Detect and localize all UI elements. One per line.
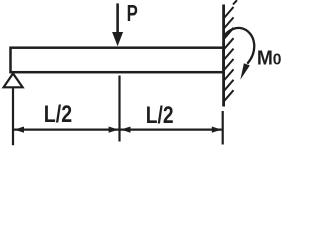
wall hatching xyxy=(224,0,237,101)
wall (fixed support) vertical line xyxy=(222,5,225,107)
svg-text:L/2: L/2 xyxy=(44,101,72,128)
dimension arrow right-right xyxy=(212,127,222,133)
load arrow P (head) xyxy=(112,32,123,46)
dimension line left span xyxy=(14,128,119,130)
dimension arrow left-left xyxy=(14,127,24,133)
moment arrow M0 (head) xyxy=(240,63,250,80)
beam AB xyxy=(11,48,224,72)
moment arrow M0 (arc) xyxy=(225,28,255,64)
extension line left (below pin support) xyxy=(12,88,14,145)
svg-text:L/2: L/2 xyxy=(146,102,174,129)
load arrow P (shaft) xyxy=(116,3,119,34)
svg-text:0: 0 xyxy=(273,52,282,69)
extension line mid (below load) xyxy=(118,76,120,142)
dimension arrow left-right xyxy=(109,127,119,133)
pin support (triangle) at A xyxy=(4,74,23,88)
dimension line right span xyxy=(121,128,222,130)
extension line right (below wall) xyxy=(222,111,224,145)
svg-text:M: M xyxy=(257,46,273,69)
dimension arrow right-left xyxy=(121,127,131,133)
svg-text:P: P xyxy=(127,0,138,26)
